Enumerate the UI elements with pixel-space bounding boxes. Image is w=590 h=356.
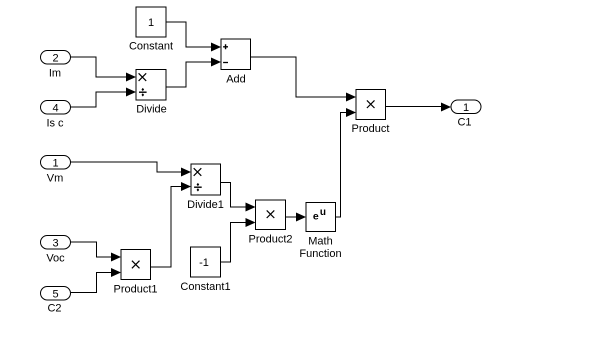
svg-text:3: 3 [52,237,58,249]
svg-text:Math: Math [308,235,332,247]
arrowhead Math in [296,213,306,222]
label Constant1 [180,281,230,293]
block Constant [136,7,166,37]
svg-text:Add: Add [226,73,246,85]
arrowhead Product1 in2 [111,268,121,277]
arrowhead Product in2 [346,108,356,117]
label Product1 [113,283,157,295]
block Product [356,90,386,120]
svg-text:Constant1: Constant1 [180,281,230,293]
svg-text:Divide1: Divide1 [187,199,224,211]
symbol multiply in Divide1 [194,168,202,176]
block Divide [136,70,166,101]
arrowhead Divide1 in2 [181,182,191,191]
label Constant [129,40,173,52]
arrowhead Product1 in1 [111,253,121,262]
svg-text:Divide: Divide [136,104,167,116]
label 2 in port2 [52,52,58,64]
label 4 in port4 [52,102,58,114]
svg-text:Im: Im [49,67,61,79]
svg-text:1: 1 [148,17,154,29]
label Divide1 [187,199,224,211]
svg-text:u: u [320,207,326,218]
label 3 in port3 [52,237,58,249]
wire Product to C1 [386,106,442,108]
symbol minus in Add [223,62,228,64]
symbol multiply in Product1 [132,261,140,269]
inport 1 Vm [41,156,71,170]
wire Product1 to Divide1 in2 [151,187,182,268]
label Vm [47,172,64,184]
arrowhead Divide1 in1 [181,168,191,177]
svg-text:2: 2 [52,52,58,64]
symbol plus in Add [223,44,228,49]
arrowhead Product in1 [346,93,356,102]
wire Divide1 to Product2 in1 [221,183,247,208]
wire Divide to Add in2 [166,62,211,87]
svg-text:Product1: Product1 [113,283,157,295]
svg-text:5: 5 [52,288,58,300]
label Is c [46,117,64,129]
block Constant1 [191,247,221,277]
outport 1 C1 [451,100,481,114]
wire Constant1 to Product2 in2 [221,223,247,263]
label Voc [46,252,65,264]
label Divide [136,104,167,116]
label eu in Math Function [313,207,326,223]
symbol multiply in Product2 [267,210,275,218]
arrowhead Divide in2 [126,88,136,97]
inport 3 Voc [41,236,71,250]
label C2 [47,302,61,314]
arrowhead Add in2 [211,58,221,67]
label Product [352,123,390,135]
svg-text:Voc: Voc [46,252,65,264]
label Math Function line2 [299,248,341,260]
wire Product2 to Math in [286,216,297,218]
arrowhead Divide in1 [126,73,136,82]
svg-text:Vm: Vm [47,172,64,184]
inport 5 C2 [41,287,71,301]
symbol multiply in Divide [139,73,147,81]
arrowhead C1 [441,103,451,112]
wire port4 to Divide in2 [71,92,126,107]
block Product2 [256,200,286,230]
arrowhead Product2 in2 [246,218,256,227]
svg-text:C2: C2 [47,302,61,314]
arrowhead Product2 in1 [246,203,256,212]
label Math Function line1 [308,235,332,247]
wire Constant to Add in1 [166,22,211,47]
label Add [226,73,246,85]
svg-text:-1: -1 [199,257,209,269]
wire port1 to Divide1 in1 [71,162,182,172]
svg-text:Product2: Product2 [248,233,292,245]
wire port5 to Product1 in2 [71,273,111,293]
symbol multiply in Product [367,100,375,108]
svg-text:1: 1 [463,102,469,114]
block Add [221,39,251,70]
svg-text:e: e [313,211,319,223]
svg-text:1: 1 [52,157,58,169]
wire port2 to Divide in1 [71,57,126,77]
label C1 [457,116,471,128]
arrowhead Add in1 [211,43,221,52]
block Math Function [306,203,336,232]
wire Add to Product in1 [251,57,347,97]
svg-text:Function: Function [299,248,341,260]
label 1 in port1 [52,157,58,169]
svg-text:Is c: Is c [46,117,64,129]
label 1 in C1 oval [463,102,469,114]
label 1 in Constant [148,17,154,29]
wire Math to Product in2 [336,113,347,218]
label -1 in Constant1 [199,257,209,269]
svg-text:Product: Product [352,123,390,135]
inport 4 Is c [41,101,71,115]
block Product1 [121,250,151,280]
symbol divide in Divide [139,88,147,97]
inport 2 Im [41,51,71,65]
label Product2 [248,233,292,245]
svg-text:Constant: Constant [129,40,173,52]
svg-text:4: 4 [52,102,58,114]
block Divide1 [191,164,221,195]
symbol divide in Divide1 [194,183,202,192]
label Im [49,67,61,79]
wire port3 to Product1 in1 [71,242,111,257]
svg-text:C1: C1 [457,116,471,128]
label 5 in port5 [52,288,58,300]
